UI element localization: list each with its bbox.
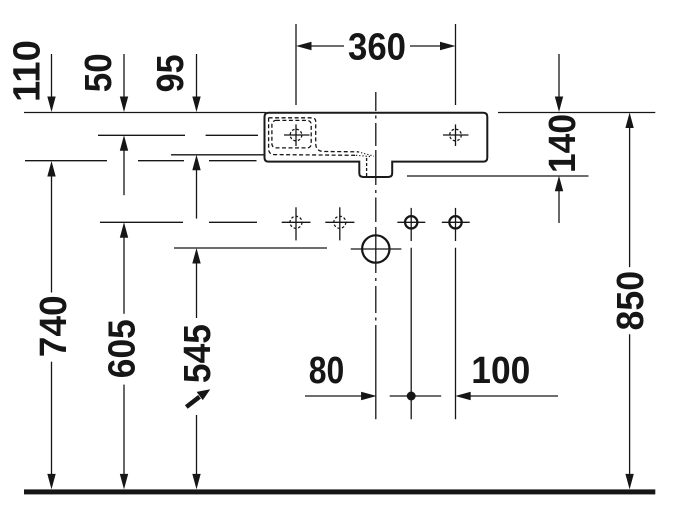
svg-text:95: 95 xyxy=(150,54,192,92)
svg-text:110: 110 xyxy=(6,40,48,102)
svg-text:100: 100 xyxy=(471,350,530,392)
svg-text:50: 50 xyxy=(78,53,120,92)
svg-text:545: 545 xyxy=(177,324,219,383)
svg-text:740: 740 xyxy=(33,295,75,357)
svg-text:605: 605 xyxy=(101,319,143,378)
svg-text:140: 140 xyxy=(542,114,584,173)
svg-text:360: 360 xyxy=(348,26,406,68)
svg-text:850: 850 xyxy=(610,271,652,331)
svg-text:80: 80 xyxy=(309,350,345,392)
